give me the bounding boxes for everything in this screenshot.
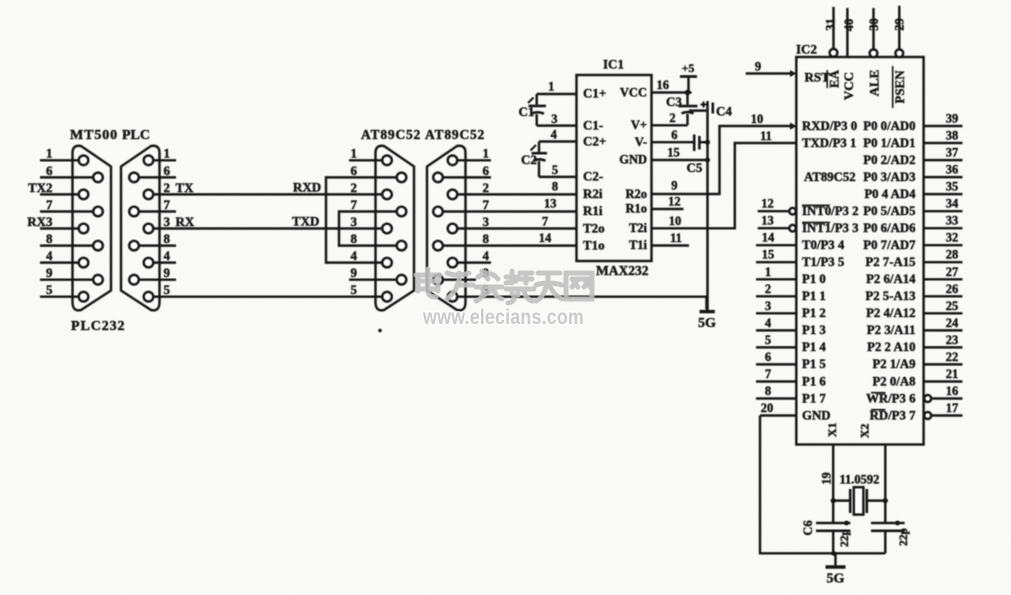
svg-text:1: 1 (548, 80, 554, 94)
svg-text:MT500: MT500 (70, 128, 118, 143)
svg-text:RXD: RXD (293, 180, 321, 195)
svg-text:P1 0: P1 0 (802, 272, 826, 286)
svg-text:2: 2 (669, 111, 675, 125)
pin 4 C2+ (539, 140, 577, 142)
svg-text:3: 3 (164, 214, 171, 229)
svg-text:12: 12 (761, 197, 774, 211)
svg-text:P2 7-A15: P2 7-A15 (865, 255, 915, 269)
IC2 right pin 35 P0 4 AD4 (864, 180, 962, 201)
IC2 left pin 20 GND (760, 401, 830, 422)
ground 5G bottom (826, 551, 846, 587)
svg-text:T2i: T2i (629, 221, 648, 235)
connector J4 AT89C52-side DB9 (right) (425, 127, 491, 310)
svg-text:P0 7/AD7: P0 7/AD7 (863, 238, 916, 252)
svg-text:15: 15 (667, 146, 680, 160)
svg-text:WR/P3 6: WR/P3 6 (866, 391, 916, 405)
svg-text:9: 9 (46, 265, 53, 280)
svg-text:P0 5/AD5: P0 5/AD5 (863, 204, 915, 218)
svg-text:T0/P3 4: T0/P3 4 (802, 238, 845, 252)
svg-text:P1 1: P1 1 (802, 289, 826, 303)
svg-text:4: 4 (483, 248, 490, 263)
pin 5 C2- (539, 176, 577, 178)
svg-text:C2+: C2+ (583, 133, 606, 148)
svg-text:5G: 5G (827, 572, 845, 587)
svg-text:C1: C1 (519, 104, 535, 119)
node dot near J3 (378, 329, 382, 333)
svg-text:X2: X2 (857, 424, 871, 439)
wire T2i pin10 to IC2 TXD pin11 (652, 143, 797, 228)
svg-text:GND: GND (619, 153, 647, 167)
svg-text:INT1/P3 3: INT1/P3 3 (802, 221, 859, 235)
svg-text:P2 6/A14: P2 6/A14 (866, 272, 916, 286)
svg-text:P0 2/AD2: P0 2/AD2 (863, 153, 915, 167)
svg-text:7: 7 (542, 214, 548, 228)
wire: J4 pin8 to MAX232 T1o (443, 244, 576, 246)
svg-text:7: 7 (351, 197, 358, 212)
svg-text:7: 7 (46, 197, 53, 212)
svg-text:2: 2 (483, 180, 490, 195)
IC2 right pin 17 RD/P3 7 (870, 401, 963, 422)
svg-text:P2 2 A10: P2 2 A10 (867, 340, 915, 354)
svg-text:11: 11 (670, 231, 682, 245)
svg-text:P2 4/A12: P2 4/A12 (866, 306, 915, 320)
svg-text:R2i: R2i (583, 186, 603, 201)
svg-text:4: 4 (551, 128, 558, 142)
wire TX: PLC pin2 to J3 pin2 (RXD) (154, 193, 382, 195)
capacitor C6 22p (801, 520, 851, 547)
svg-text:T1o: T1o (583, 237, 605, 252)
svg-text:P2 0/A8: P2 0/A8 (872, 374, 915, 388)
svg-text:17: 17 (946, 401, 959, 415)
capacitor C2 (521, 142, 547, 177)
svg-text:38: 38 (946, 129, 959, 143)
IC2 right pin 24 P2 3/A11 (867, 316, 963, 337)
svg-text:9: 9 (351, 265, 358, 280)
IC2 left pin 1 P1 0 (756, 265, 826, 286)
svg-text:C1-: C1- (583, 117, 603, 132)
svg-text:C2-: C2- (583, 169, 603, 184)
svg-text:4: 4 (351, 248, 358, 263)
svg-text:8: 8 (351, 231, 358, 246)
svg-text:P1 2: P1 2 (802, 306, 826, 320)
pin 1 C1+ (537, 93, 577, 95)
svg-text:7: 7 (765, 367, 771, 381)
svg-text:AT89C52: AT89C52 (804, 170, 856, 184)
svg-text:1: 1 (765, 265, 771, 279)
svg-text:3: 3 (551, 112, 557, 126)
svg-text:C3: C3 (666, 94, 682, 109)
svg-text:5: 5 (46, 282, 53, 297)
IC2 right pin 26 P2 5-A13 (865, 282, 962, 303)
svg-text:11: 11 (760, 129, 772, 143)
svg-text:6: 6 (351, 163, 358, 178)
pin 31 EA (824, 7, 838, 57)
pin 12 R1o (652, 208, 684, 210)
IC2 left pin 12 INT0/P3 2 (758, 197, 859, 218)
svg-text:14: 14 (539, 231, 552, 245)
IC2 right pin 38 P0 1/AD1 (863, 129, 962, 150)
svg-text:PLC232: PLC232 (71, 319, 125, 334)
IC2 right pin 36 P0 3/AD3 (863, 163, 962, 184)
svg-text:www.elecians.com: www.elecians.com (422, 305, 584, 329)
svg-text:26: 26 (946, 282, 959, 296)
pin 6 V- and capacitor C5 (652, 128, 711, 175)
svg-text:6: 6 (671, 128, 677, 142)
svg-text:R1o: R1o (625, 202, 647, 216)
svg-text:INT0/P3 2: INT0/P3 2 (802, 204, 859, 218)
IC2 right pin 25 P2 4/A12 (866, 299, 962, 320)
svg-text:27: 27 (946, 265, 959, 279)
svg-text:VCC: VCC (620, 85, 647, 99)
wire: PLC pin5 to J3 pin5 (154, 295, 382, 297)
pin 3 C1- (537, 124, 577, 126)
IC2 right pin 28 P2 7-A15 (865, 248, 962, 269)
svg-text:TX2: TX2 (28, 180, 53, 195)
svg-text:AT89C52: AT89C52 (361, 127, 421, 142)
crystal Y1 11.0592 (831, 473, 888, 515)
pin 15 GND (652, 159, 708, 161)
svg-text:C6: C6 (801, 520, 815, 535)
svg-text:V-: V- (635, 135, 647, 149)
pin 11 T1i (652, 244, 690, 246)
svg-text:8: 8 (483, 231, 490, 246)
svg-text:RX: RX (176, 214, 195, 229)
svg-text:C2: C2 (521, 152, 537, 167)
svg-text:VCC: VCC (841, 72, 856, 100)
svg-text:20: 20 (761, 401, 774, 415)
svg-text:T1i: T1i (629, 238, 648, 252)
svg-text:9: 9 (164, 265, 171, 280)
svg-text:35: 35 (946, 180, 959, 194)
svg-text:P2 3/A11: P2 3/A11 (867, 323, 916, 337)
IC2 right pin 39 P0 0/AD0 (863, 112, 962, 133)
wire R2o pin9 to IC2 RXD pin10 (652, 126, 791, 194)
rotated pin names EA VCC ALE PSEN (827, 66, 908, 108)
svg-text:AT89C52: AT89C52 (425, 127, 485, 142)
capacitor C3 (666, 93, 698, 126)
wire X2 pin18 (884, 445, 886, 523)
IC2 left pin 8 P1 7 (756, 384, 826, 405)
svg-text:IC1: IC1 (603, 57, 624, 72)
svg-text:8: 8 (765, 384, 771, 398)
svg-text:P1 3: P1 3 (802, 323, 826, 337)
svg-text:21: 21 (946, 367, 959, 381)
IC2 left pin 5 P1 4 (756, 333, 826, 354)
svg-text:PLC: PLC (122, 128, 150, 143)
IC2 left pin 10 RXD/P3 0 (751, 112, 857, 133)
IC2 right pin 23 P2 2 A10 (867, 333, 962, 354)
ground rail wire (706, 101, 709, 311)
microcontroller IC2 AT89C52 (796, 42, 924, 445)
svg-text:P2 1/A9: P2 1/A9 (872, 357, 915, 371)
svg-text:P1 4: P1 4 (802, 340, 826, 354)
svg-text:IC2: IC2 (796, 42, 817, 57)
svg-text:T2o: T2o (583, 220, 605, 235)
capacitor C1 (519, 94, 547, 126)
wire: J4 pin5 to ground (458, 297, 707, 310)
svg-text:1: 1 (351, 146, 358, 161)
svg-text:14: 14 (762, 231, 775, 245)
svg-text:19: 19 (820, 472, 834, 485)
connector J3 AT89C52-side DB9 (left) (326, 127, 421, 310)
svg-text:23: 23 (946, 333, 959, 347)
svg-text:36: 36 (946, 163, 959, 177)
svg-text:4: 4 (164, 248, 171, 263)
IC2 left pin 11 TXD/P3 1 (760, 129, 856, 150)
svg-text:+5: +5 (682, 61, 695, 75)
svg-text:37: 37 (946, 146, 959, 160)
svg-text:RXD/P3 0: RXD/P3 0 (802, 119, 857, 133)
svg-text:10: 10 (751, 112, 764, 126)
svg-text:1: 1 (46, 146, 53, 161)
svg-text:5: 5 (164, 282, 171, 297)
svg-text:5: 5 (552, 163, 558, 177)
wire RX: PLC pin3 to J3 pin3 (TXD) (154, 227, 382, 229)
IC2 left pin 13 INT1/P3 3 (758, 214, 859, 235)
IC2 left pin 6 P1 5 (756, 350, 826, 371)
svg-text:13: 13 (544, 196, 557, 210)
pin 29 PSEN (893, 6, 907, 57)
jumper J3 pins 7-8 (339, 212, 396, 246)
svg-text:3: 3 (765, 299, 771, 313)
IC2 right pin 32 P0 7/AD7 (863, 231, 962, 252)
svg-text:22p: 22p (898, 528, 910, 546)
svg-text:2: 2 (164, 180, 171, 195)
ground 5G under MAX232 (698, 312, 716, 331)
svg-text:6: 6 (765, 350, 771, 364)
svg-text:2: 2 (351, 180, 358, 195)
svg-text:P0 6/AD6: P0 6/AD6 (863, 221, 916, 235)
svg-text:22p: 22p (839, 529, 851, 547)
svg-text:PSEN: PSEN (892, 70, 907, 104)
svg-text:4: 4 (765, 316, 772, 330)
svg-text:5: 5 (351, 282, 358, 297)
svg-text:8: 8 (552, 180, 558, 194)
IC2 left pin 7 P1 6 (756, 367, 826, 388)
svg-text:30: 30 (867, 18, 881, 31)
IC2 right pin 33 P0 6/AD6 (863, 214, 962, 235)
capacitor C7 22p (871, 521, 910, 546)
svg-text:29: 29 (893, 18, 907, 31)
svg-text:ALE: ALE (867, 70, 882, 97)
svg-text:5: 5 (765, 333, 771, 347)
IC2 left pin 14 T0/P3 4 (756, 231, 845, 252)
svg-text:TXD/P3 1: TXD/P3 1 (802, 136, 856, 150)
svg-text:4: 4 (46, 248, 53, 263)
capacitor C4 (689, 102, 732, 119)
IC2 right pin 16 WR/P3 6 (866, 384, 962, 405)
IC2 right pin 21 P2 0/A8 (872, 367, 962, 388)
svg-text:GND: GND (802, 408, 830, 422)
wire GND pin20 routing to ground (760, 416, 885, 554)
IC2 right pin 27 P2 6/A14 (866, 265, 962, 286)
jumper J3 pins 6-4 (326, 177, 396, 262)
svg-text:RD/P3 7: RD/P3 7 (870, 408, 916, 422)
svg-text:7: 7 (483, 197, 490, 212)
svg-text:8: 8 (164, 231, 171, 246)
svg-text:1: 1 (164, 146, 171, 161)
svg-text:2: 2 (765, 282, 771, 296)
pin 40 VCC (842, 8, 856, 57)
svg-text:34: 34 (946, 197, 959, 211)
IC2 left pin 3 P1 2 (756, 299, 826, 320)
svg-text:T1/P3 5: T1/P3 5 (802, 255, 844, 269)
svg-text:9: 9 (755, 60, 761, 74)
svg-text:32: 32 (946, 231, 959, 245)
svg-text:V+: V+ (631, 118, 647, 132)
svg-text:28: 28 (946, 248, 959, 262)
IC2 left pin 2 P1 1 (756, 282, 826, 303)
svg-text:11.0592: 11.0592 (840, 473, 880, 487)
svg-text:22: 22 (946, 350, 959, 364)
svg-text:P0 0/AD0: P0 0/AD0 (863, 119, 915, 133)
svg-text:24: 24 (946, 316, 959, 330)
wire: J4 pin2 to MAX232 R2i (458, 193, 577, 195)
svg-text:3: 3 (483, 214, 490, 229)
svg-text:RST: RST (805, 70, 831, 85)
svg-text:X1: X1 (825, 422, 839, 437)
svg-text:P1 5: P1 5 (802, 357, 826, 371)
connector J1 MT500/PLC232 DB9 (27, 128, 125, 334)
svg-text:P0 1/AD1: P0 1/AD1 (863, 136, 915, 150)
svg-text:31: 31 (824, 18, 838, 31)
IC2 right pin 34 P0 5/AD5 (863, 197, 962, 218)
svg-text:40: 40 (842, 19, 856, 32)
svg-text:RX3: RX3 (27, 214, 53, 229)
svg-text:12: 12 (668, 195, 681, 209)
svg-text:7: 7 (164, 197, 171, 212)
svg-text:15: 15 (762, 248, 775, 262)
connector J2 PLC DB9 (121, 128, 176, 310)
svg-text:6: 6 (483, 163, 490, 178)
wire: J4 pin3 to MAX232 T2o (458, 227, 577, 229)
pin 30 ALE (867, 8, 881, 57)
svg-text:P0 3/AD3: P0 3/AD3 (863, 170, 915, 184)
wire X1 pin19 (832, 445, 834, 523)
svg-text:R1i: R1i (583, 203, 603, 218)
pin 9 RST (746, 60, 830, 85)
svg-text:R2o: R2o (625, 187, 647, 201)
svg-text:P1 7: P1 7 (802, 391, 826, 405)
svg-text:6: 6 (46, 163, 53, 178)
svg-text:3: 3 (351, 214, 358, 229)
wire: J4 pin7 to MAX232 R1i (443, 210, 576, 212)
svg-text:9: 9 (671, 179, 677, 193)
svg-text:10: 10 (669, 214, 682, 228)
svg-text:TX: TX (176, 180, 195, 195)
svg-text:8: 8 (46, 231, 53, 246)
IC2 right pin 37 P0 2/AD2 (863, 146, 962, 167)
svg-text:TXD: TXD (292, 214, 319, 229)
svg-text:16: 16 (946, 384, 959, 398)
svg-text:C5: C5 (687, 160, 703, 175)
IC2 left pin 15 T1/P3 5 (756, 248, 844, 269)
svg-text:P2 5-A13: P2 5-A13 (865, 289, 915, 303)
svg-text:C1+: C1+ (583, 85, 606, 100)
IC2 left pin 4 P1 3 (756, 316, 826, 337)
svg-text:C4: C4 (716, 104, 732, 119)
IC2 right pin 22 P2 1/A9 (872, 350, 962, 371)
svg-text:16: 16 (657, 78, 670, 92)
svg-text:6: 6 (164, 163, 171, 178)
svg-text:5G: 5G (698, 316, 716, 331)
svg-text:MAX232: MAX232 (596, 263, 649, 278)
pin 2 V+ (652, 124, 688, 126)
svg-text:39: 39 (946, 112, 959, 126)
svg-text:P1 6: P1 6 (802, 374, 826, 388)
op-amp / transceiver IC1 MAX232 (577, 57, 652, 278)
svg-text:13: 13 (761, 214, 774, 228)
svg-text:33: 33 (946, 214, 959, 228)
svg-text:1: 1 (483, 146, 490, 161)
pin 16 VCC and +5 supply (652, 61, 698, 95)
svg-text:25: 25 (946, 299, 959, 313)
svg-text:P0 4 AD4: P0 4 AD4 (864, 187, 916, 201)
